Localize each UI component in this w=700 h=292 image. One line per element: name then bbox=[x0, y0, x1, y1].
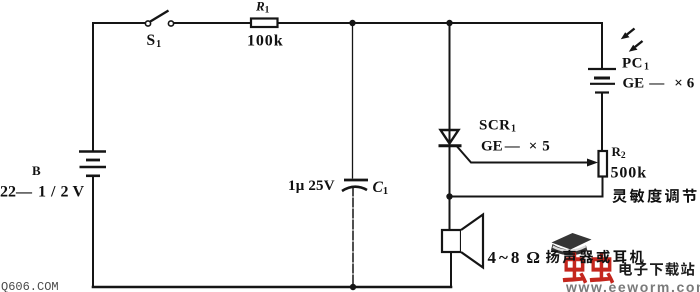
wire SCR gate to R2 wiper bbox=[458, 147, 590, 163]
node junction dot top rail / SCR bbox=[446, 20, 452, 26]
label sensitivity adjust (CJK) bbox=[612, 189, 696, 204]
potentiometer R2 bbox=[599, 151, 608, 177]
wire C1 branch upper bbox=[352, 23, 354, 179]
node junction dot top rail / C1 bbox=[349, 20, 355, 26]
label speaker-or-earphone (CJK) bbox=[546, 250, 644, 264]
wire PC1 to R2 bbox=[601, 93, 603, 151]
wire top rail middle segment (switch to R1) bbox=[174, 22, 251, 24]
svg-text:4~8Ω: 4~8Ω bbox=[488, 248, 543, 267]
wire R2 bottom to SCR cathode node bbox=[450, 177, 603, 197]
wire SCR cathode down to speaker bbox=[449, 147, 451, 230]
wire left rail (battery branch) bbox=[92, 23, 94, 150]
svg-text:1μ 25V: 1μ 25V bbox=[288, 178, 335, 194]
wire top rail left segment bbox=[93, 22, 145, 24]
watermark logo cap bbox=[551, 233, 592, 255]
wire top rail right segment (R1 to top-right corner) bbox=[277, 23, 602, 68]
switch S1 bbox=[145, 11, 173, 27]
wire bottom rail bbox=[93, 286, 451, 289]
R2 wiper arrowhead bbox=[587, 159, 598, 167]
svg-text:www.eeworm.com: www.eeworm.com bbox=[565, 279, 700, 292]
resistor R1 bbox=[251, 19, 278, 28]
svg-text:B: B bbox=[32, 163, 41, 178]
node junction dot SCR cathode / R2 return bbox=[446, 193, 452, 199]
wire C1 branch lower bbox=[352, 187, 354, 288]
svg-text:Q606.COM: Q606.COM bbox=[1, 280, 59, 292]
svg-text:100k: 100k bbox=[247, 33, 284, 50]
wire battery to bottom rail bbox=[92, 176, 94, 287]
svg-text:500k: 500k bbox=[611, 165, 648, 182]
svg-text:22—1/2V: 22—1/2V bbox=[0, 184, 84, 201]
wire speaker to bottom rail bbox=[450, 252, 452, 287]
node junction dot bottom rail / C1 bbox=[350, 284, 356, 290]
light arrow 1 bbox=[621, 29, 635, 40]
wire SCR anode branch bbox=[449, 23, 451, 130]
watermark chongchong (CJK red) bbox=[563, 253, 615, 284]
watermark dianzi download site (CJK) bbox=[620, 262, 695, 276]
capacitor C1 bbox=[342, 180, 368, 191]
thyristor SCR1 bbox=[439, 130, 462, 146]
battery B bbox=[79, 152, 106, 176]
light arrow 2 bbox=[629, 41, 643, 52]
photocell PC1 bbox=[588, 69, 616, 93]
speaker LS bbox=[442, 215, 483, 268]
